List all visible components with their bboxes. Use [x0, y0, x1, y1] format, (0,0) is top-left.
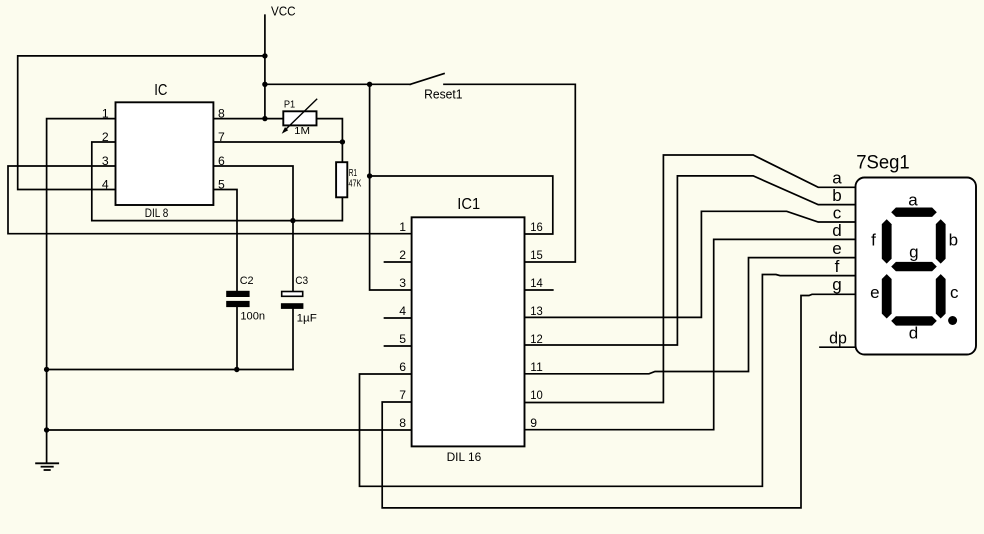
svg-text:d: d	[832, 221, 841, 240]
svg-text:3: 3	[399, 276, 406, 290]
svg-text:g: g	[832, 275, 841, 294]
svg-text:8: 8	[218, 106, 225, 120]
svg-text:6: 6	[218, 154, 225, 168]
svg-text:8: 8	[399, 416, 406, 430]
svg-text:16: 16	[530, 220, 543, 234]
svg-text:1M: 1M	[294, 126, 310, 137]
svg-text:1µF: 1µF	[297, 313, 317, 325]
svg-text:1: 1	[399, 220, 406, 234]
svg-text:6: 6	[399, 360, 406, 374]
svg-text:Reset1: Reset1	[424, 87, 462, 102]
svg-text:12: 12	[530, 332, 543, 346]
svg-text:C3: C3	[295, 275, 308, 287]
svg-text:4: 4	[102, 177, 109, 191]
svg-text:a: a	[832, 169, 842, 188]
svg-text:10: 10	[530, 388, 543, 402]
svg-text:5: 5	[218, 177, 225, 191]
svg-text:e: e	[832, 239, 841, 258]
svg-text:IC: IC	[154, 82, 167, 99]
svg-text:f: f	[835, 257, 840, 276]
svg-text:9: 9	[530, 416, 537, 430]
svg-text:7Seg1: 7Seg1	[856, 153, 910, 174]
svg-text:2: 2	[399, 248, 406, 262]
svg-text:P1: P1	[284, 100, 296, 111]
svg-text:4: 4	[399, 304, 406, 318]
svg-text:a: a	[908, 191, 918, 210]
svg-text:15: 15	[530, 248, 543, 262]
svg-text:7: 7	[218, 130, 225, 144]
svg-text:f: f	[871, 230, 876, 249]
svg-text:b: b	[949, 231, 958, 250]
svg-text:d: d	[909, 323, 918, 342]
svg-text:2: 2	[102, 130, 109, 144]
svg-text:100n: 100n	[240, 311, 265, 323]
svg-text:c: c	[833, 204, 842, 223]
svg-text:1: 1	[102, 106, 109, 120]
svg-text:b: b	[832, 186, 841, 205]
svg-text:IC1: IC1	[457, 196, 480, 213]
svg-text:11: 11	[530, 360, 543, 374]
svg-text:3: 3	[102, 154, 109, 168]
svg-text:dp: dp	[829, 329, 847, 348]
svg-text:VCC: VCC	[271, 4, 296, 19]
svg-text:e: e	[870, 283, 879, 302]
svg-text:13: 13	[530, 304, 543, 318]
svg-text:5: 5	[399, 332, 406, 346]
svg-text:g: g	[909, 243, 918, 262]
svg-text:7: 7	[399, 388, 406, 402]
svg-text:DIL 8: DIL 8	[145, 206, 169, 220]
svg-text:DIL 16: DIL 16	[447, 450, 482, 464]
svg-text:14: 14	[530, 276, 543, 290]
svg-text:C2: C2	[240, 275, 254, 287]
svg-text:c: c	[950, 283, 959, 302]
svg-text:47K: 47K	[349, 178, 362, 189]
